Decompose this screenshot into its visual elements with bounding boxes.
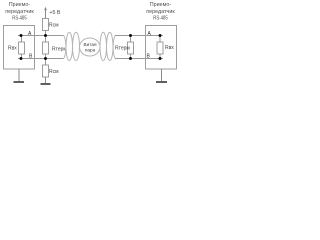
transceiver U2 box (right RS-485 transceiver) [146,26,177,70]
junction dot: node B at right termination [129,57,132,60]
power: +5V arrow shaft [45,10,47,19]
junction dot: node A at bias column [44,34,47,37]
resistor Rтерм right body [128,42,134,54]
twisted pair: lens 3 top arc [100,32,107,47]
twisted pair: lens 4 bottom arc [107,47,114,61]
ground: bias column bar [41,83,51,85]
wire: twisted pair to node B right (right B wire) [115,58,163,60]
svg-text:RS-485: RS-485 [153,16,168,22]
ground: U1 ground bar [14,81,25,83]
transceiver U1 box (left RS-485 transceiver) [4,26,35,70]
resistor Rвх (left input resistor) body [19,42,25,54]
wire: top Rсм to node A [45,31,47,43]
svg-text:RS-485: RS-485 [12,16,27,22]
twisted pair: lens 4 top arc [107,32,114,47]
svg-text:Витая: Витая [84,42,97,47]
twisted pair: lens 2 bottom arc [73,47,80,61]
junction dot: node A at U2 [159,34,162,37]
resistor Rтерм left (termination resistor) body [43,42,49,54]
resistor Rвх right body [157,42,163,54]
label: Витая пара (twisted pair) [84,42,97,53]
resistor Rвх (left input resistor) leads [21,36,23,43]
svg-text:передатчик: передатчик [5,9,34,15]
twisted pair: wire A entry curve [64,36,67,48]
twisted pair: middle lens bottom arc [80,47,101,56]
svg-text:+5 В: +5 В [50,10,61,16]
wire: node B inside U1 to twisted pair (left B wire) [18,58,64,60]
twisted pair: lens 1 bottom arc [66,47,73,61]
junction dot: node B at U2 [159,57,162,60]
twisted pair: wire A exit curve [113,36,116,48]
svg-text:передатчик: передатчик [146,9,175,15]
resistor Rсм top (pull-up bias resistor) body [43,19,49,31]
twisted pair: middle lens top arc [80,38,101,47]
junction dot: node A at right termination [129,34,132,37]
svg-text:Rтерм: Rтерм [52,46,67,52]
wire: twisted pair to node A right (right A wire) [115,35,163,37]
svg-text:Приемо-: Приемо- [9,2,31,8]
resistor Rвх right (input resistor) leads [159,36,161,43]
svg-text:Приемо-: Приемо- [150,2,172,8]
twisted pair: lens 1 top arc [66,32,73,47]
wire: node A inside U1 to twisted pair (left A wire) [18,35,64,37]
svg-text:Rсм: Rсм [49,69,59,75]
power: +5V arrow head [44,7,47,10]
junction dot: node B at bias column [44,57,47,60]
svg-text:Rвх: Rвх [8,45,17,51]
svg-text:Rтерм: Rтерм [115,46,130,52]
ground: U2 ground bar [156,81,167,83]
label: left transceiver caption "Приемо-передатчик RS-485" [5,2,34,22]
junction dot: node A at U1 [20,34,23,37]
svg-text:Rсм: Rсм [49,22,59,28]
ground: U1 ground stem [18,69,20,82]
twisted pair: wire B entry curve [64,47,67,59]
ground: bias column stem [45,77,47,84]
junction dot: node B at U1 [20,57,23,60]
resistor Rтерм right (termination resistor) leads [130,36,132,43]
wire: Rтерм left to node B / bottom Rсм [45,54,47,65]
svg-text:пара: пара [85,48,96,53]
twisted pair: wire B exit curve [113,47,116,59]
svg-text:Rвх: Rвх [165,45,174,51]
twisted pair: lens 3 bottom arc [100,47,107,61]
label: right transceiver caption "Приемо-передатчик RS-485" [146,2,175,22]
resistor Rсм bottom (pull-down bias resistor) body [43,65,49,77]
twisted pair: lens 2 top arc [73,32,80,47]
ground: U2 ground stem [161,69,163,81]
